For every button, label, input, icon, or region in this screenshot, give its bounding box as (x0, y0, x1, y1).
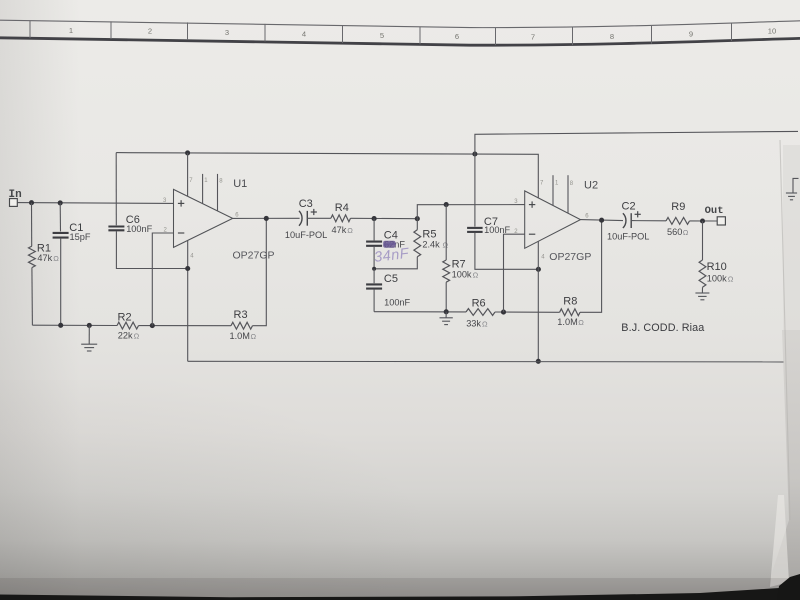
svg-text:47k: 47k (332, 225, 347, 235)
svg-text:U2: U2 (584, 179, 598, 191)
dark desk below paper (0, 586, 800, 600)
resistor R1 (31, 203, 33, 246)
svg-text:C3: C3 (299, 198, 313, 210)
ground (top right corner) (793, 178, 799, 192)
resistor R9 (666, 218, 690, 225)
svg-text:C2: C2 (622, 200, 636, 212)
svg-text:Ω: Ω (347, 226, 353, 235)
resistor R10 (702, 221, 704, 260)
resistor R7 (445, 205, 447, 260)
svg-text:7: 7 (531, 32, 535, 41)
wire U2 output (581, 220, 624, 221)
svg-text:OP27GP: OP27GP (233, 250, 275, 262)
U2 pin numbers (514, 181, 589, 261)
op-amp U1 (174, 189, 233, 247)
capacitor C5 (373, 269, 375, 283)
wire R8 to U2 output (580, 220, 602, 312)
resistor R4 (331, 215, 351, 222)
svg-text:2.4k: 2.4k (422, 240, 440, 250)
resistor R2 (117, 322, 139, 329)
svg-text:10uF-POL: 10uF-POL (285, 230, 327, 240)
wire R9 to Out (690, 220, 718, 222)
capacitor C2 (10uF-POL) (623, 211, 641, 228)
U1 pin 1 (202, 174, 204, 204)
ground (C5/R7) (445, 312, 447, 318)
svg-text:Ω: Ω (728, 274, 734, 283)
svg-text:5: 5 (380, 31, 384, 40)
wire V+ rail (upper) (116, 153, 538, 199)
ruler cell dividers (30, 21, 732, 46)
ruler top line (0, 20, 800, 27)
node input junction (29, 200, 34, 205)
U1 pin 4 / V- drop (187, 241, 189, 362)
svg-text:R6: R6 (472, 298, 486, 310)
wire R5 node up to U2+ (417, 205, 524, 219)
svg-text:560: 560 (667, 227, 682, 237)
U1 pin 7 (187, 153, 189, 197)
ground (440, 318, 453, 325)
svg-text:1.0M: 1.0M (230, 331, 250, 341)
svg-text:Ω: Ω (683, 228, 689, 237)
svg-text:100k: 100k (452, 269, 472, 279)
svg-text:22k: 22k (118, 331, 133, 341)
ruler bottom thick line (0, 38, 800, 45)
svg-text:10: 10 (768, 27, 776, 36)
ground (695, 293, 709, 300)
svg-text:2: 2 (148, 27, 152, 36)
svg-text:100k: 100k (707, 273, 727, 283)
capacitor C7 (474, 154, 476, 227)
svg-text:1.0M: 1.0M (557, 317, 577, 327)
svg-text:Ω: Ω (53, 254, 59, 263)
wire bottom feedback rail (In side) (32, 324, 117, 326)
svg-text:OP27GP: OP27GP (549, 251, 591, 263)
svg-text:Ω: Ω (251, 332, 257, 341)
op-amp U2 (525, 191, 581, 248)
wire R6 to R8 (495, 311, 560, 313)
ground (786, 193, 797, 200)
svg-text:U1: U1 (233, 178, 247, 190)
wire U2 inverting input drop (504, 234, 525, 312)
capacitor C1 (59, 203, 61, 232)
svg-text:Ω: Ω (482, 319, 488, 328)
svg-text:100nF: 100nF (384, 297, 410, 307)
paper right edge region (783, 145, 800, 335)
svg-text:1: 1 (69, 26, 73, 35)
svg-text:Out: Out (705, 205, 724, 217)
svg-text:15pF: 15pF (70, 232, 91, 242)
svg-text:100nF: 100nF (126, 224, 152, 234)
svg-text:9: 9 (689, 30, 693, 39)
svg-text:4: 4 (302, 30, 306, 39)
ground (81, 344, 97, 351)
resistor R8 (560, 309, 580, 316)
wire C2 to R9 (631, 220, 666, 222)
svg-text:Ω: Ω (134, 332, 140, 341)
wire C6 bottom to U1 pin4 node (116, 231, 187, 268)
svg-text:3: 3 (225, 28, 229, 37)
resistor R5 (414, 230, 421, 257)
svg-text:R4: R4 (335, 202, 349, 214)
svg-text:6: 6 (455, 32, 459, 41)
svg-text:47k: 47k (37, 253, 52, 263)
handwritten correction 34nF (383, 241, 395, 248)
U1 pin 8 (217, 174, 219, 211)
resistor R3 (231, 322, 253, 329)
wire R4 to R5 node (351, 217, 418, 219)
wire U1 output (233, 217, 300, 219)
svg-text:8: 8 (610, 32, 614, 41)
svg-text:10uF-POL: 10uF-POL (607, 231, 649, 241)
wire U1 V- to ground rail / bottom long rail (188, 360, 784, 363)
U1 pin numbers (163, 178, 239, 259)
wire C3 to R4 (307, 217, 331, 219)
svg-text:33k: 33k (466, 318, 481, 328)
svg-text:B.J. CODD. Riaa: B.J. CODD. Riaa (621, 322, 704, 334)
svg-text:Ω: Ω (578, 318, 584, 327)
wire In to U1+ (17, 202, 173, 205)
wire R2 to R3 (139, 325, 232, 327)
svg-text:Ω: Ω (473, 270, 479, 279)
resistor R6 (466, 309, 495, 316)
svg-text:C5: C5 (384, 273, 398, 285)
ground (input divider) (88, 325, 90, 344)
svg-text:R3: R3 (234, 309, 248, 321)
svg-text:R8: R8 (563, 296, 577, 308)
U2 pin 4 / V- drop (537, 241, 539, 361)
svg-text:100nF: 100nF (484, 225, 510, 235)
ruler numbers (69, 26, 776, 42)
U2 pin 8 (567, 175, 569, 213)
svg-text:Ω: Ω (443, 241, 449, 250)
wire supply top rail (475, 131, 798, 154)
wire U1 inverting input to feedback node (152, 233, 173, 326)
svg-text:R2: R2 (118, 311, 132, 323)
svg-text:R10: R10 (707, 261, 727, 273)
U2 pin 1 (552, 175, 554, 205)
wire bottom rail (U2 feedback) (374, 311, 466, 313)
capacitor C6 (115, 153, 117, 226)
wire R3 to U1 output (253, 218, 267, 325)
capacitor C4 (373, 219, 375, 241)
capacitor C3 (10uF-POL) (299, 209, 317, 226)
svg-text:R9: R9 (671, 201, 685, 213)
